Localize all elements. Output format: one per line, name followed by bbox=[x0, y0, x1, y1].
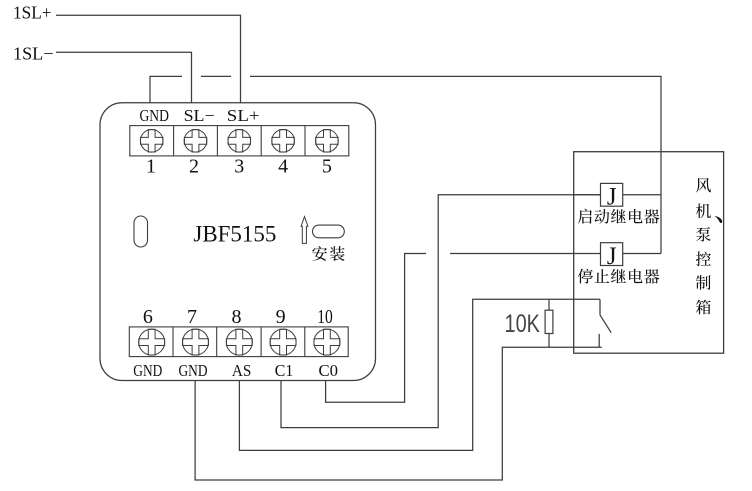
svg-text:1SL+: 1SL+ bbox=[13, 2, 52, 22]
svg-text:10K: 10K bbox=[505, 310, 541, 338]
svg-text:3: 3 bbox=[234, 156, 244, 178]
wire relay J1 leads bbox=[574, 194, 661, 196]
node label 1SL- bbox=[13, 43, 54, 63]
screw terminal 6 bbox=[139, 329, 165, 355]
svg-text:1SL−: 1SL− bbox=[13, 43, 54, 63]
resistor 10K body bbox=[545, 299, 553, 347]
LED window oval bbox=[134, 216, 148, 247]
top terminal strip bbox=[130, 126, 349, 156]
svg-text:9: 9 bbox=[276, 306, 286, 328]
wire 1SL- to terminal 2 bbox=[56, 52, 192, 103]
svg-text:GND: GND bbox=[179, 361, 208, 380]
svg-text:SL+: SL+ bbox=[227, 106, 260, 125]
install arrow bbox=[301, 217, 308, 244]
relay J2 (stop) bbox=[601, 243, 623, 270]
svg-text:JBF5155: JBF5155 bbox=[193, 221, 276, 246]
terminal numbers 1-5 bbox=[146, 156, 332, 178]
wire GND terminal 1 to relay common (with crossover gaps) bbox=[150, 76, 661, 253]
terminal labels GND GND AS C1 C0 bbox=[133, 361, 338, 380]
terminal labels GND SL- SL+ bbox=[139, 106, 259, 125]
screw terminal 4 bbox=[272, 130, 295, 153]
svg-text:C1: C1 bbox=[275, 361, 294, 380]
screw terminal 8 bbox=[226, 329, 252, 355]
value label 10K bbox=[505, 310, 541, 338]
screw terminal 1 bbox=[140, 130, 163, 153]
svg-text:2: 2 bbox=[189, 156, 199, 178]
module name JBF5155 bbox=[193, 221, 276, 246]
screw terminal 10 bbox=[314, 329, 340, 355]
wire relay J2 right lead bbox=[623, 253, 661, 255]
svg-text:8: 8 bbox=[232, 306, 242, 328]
wire GND terminal 7 to resistor/switch bottom bbox=[195, 347, 602, 480]
svg-text:10: 10 bbox=[317, 306, 333, 328]
node label 1SL+ bbox=[13, 2, 52, 22]
svg-text:J: J bbox=[607, 243, 617, 270]
svg-text:GND: GND bbox=[139, 106, 169, 125]
label stop relay bbox=[578, 269, 660, 284]
control box outline bbox=[574, 152, 724, 354]
label start relay bbox=[578, 209, 659, 224]
bottom terminal strip bbox=[129, 327, 348, 357]
svg-text:SL−: SL− bbox=[184, 106, 215, 125]
wire C0 terminal 10 to stop relay (gap at crossing) bbox=[326, 254, 601, 403]
wire 1SL+ to terminal 3 bbox=[56, 15, 241, 103]
relay J1 (start) bbox=[601, 183, 623, 210]
terminal numbers 6-10 bbox=[143, 306, 286, 328]
wire C1 terminal 9 to start relay bbox=[281, 195, 601, 428]
module JBF5155 outline bbox=[100, 103, 376, 381]
svg-text:5: 5 bbox=[322, 156, 332, 178]
label anzhuang (install) bbox=[312, 246, 344, 261]
svg-text:C0: C0 bbox=[318, 361, 338, 380]
svg-text:6: 6 bbox=[143, 306, 153, 328]
screw terminal 5 bbox=[316, 130, 339, 153]
svg-text:GND: GND bbox=[133, 361, 162, 380]
wire AS terminal 8 to resistor/switch top bbox=[239, 299, 600, 450]
install slot capsule bbox=[313, 225, 345, 238]
screw terminal 2 bbox=[184, 130, 207, 153]
screw terminal 9 bbox=[270, 329, 296, 355]
svg-text:J: J bbox=[607, 184, 617, 211]
switch contact bbox=[599, 299, 611, 347]
screw terminal 7 bbox=[183, 329, 209, 355]
svg-text:1: 1 bbox=[146, 156, 156, 178]
label fan/pump control box (vertical) bbox=[696, 178, 722, 315]
screw terminal 3 bbox=[228, 130, 251, 153]
svg-text:AS: AS bbox=[232, 361, 252, 380]
svg-text:4: 4 bbox=[278, 156, 288, 178]
svg-text:7: 7 bbox=[187, 306, 197, 328]
